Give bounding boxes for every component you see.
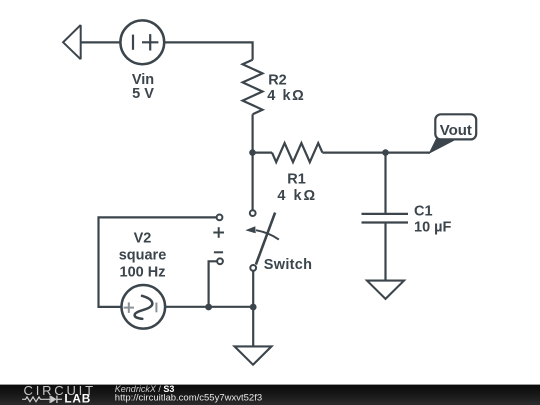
svg-text:100 Hz: 100 Hz (120, 265, 166, 281)
voltage source V2 (122, 285, 166, 329)
switch SW1 top terminal (250, 210, 256, 216)
svg-text:C1: C1 (414, 204, 433, 220)
switch SW1 blade (256, 213, 275, 265)
wire Vin positive to R2 top (164, 42, 252, 59)
wire control − terminal down to bottom net (209, 261, 217, 307)
net flag Vout (430, 114, 477, 153)
switch SW1 bottom terminal (250, 265, 256, 271)
resistor R2 (243, 60, 263, 115)
ground GND1 (rotated left, at Vin negative) (63, 25, 81, 59)
wire junction to Vout flag (386, 152, 431, 154)
svg-text:4 kΩ: 4 kΩ (277, 188, 317, 204)
label R1 4 kΩ (277, 172, 317, 204)
wire ground to Vin negative terminal (81, 41, 121, 43)
svg-text:R2: R2 (268, 73, 287, 89)
svg-text:4 kΩ: 4 kΩ (267, 88, 305, 104)
svg-text:LAB: LAB (64, 392, 91, 405)
switch SW1 control terminal − (217, 258, 223, 264)
voltage source Vin (120, 20, 164, 64)
wire Vout junction down to C1 top plate (384, 153, 386, 214)
svg-text:Switch: Switch (264, 257, 313, 273)
svg-text:5 V: 5 V (132, 86, 154, 102)
junction node R2/R1/switch (249, 149, 256, 156)
wire control + terminal to V2 left (up and over) (99, 217, 217, 307)
wire V2 right terminal along bottom net to switch (165, 306, 253, 308)
label C1 10 µF (414, 204, 452, 236)
V2 polarity + (gray) (124, 302, 157, 313)
switch SW1 actuation arrow (245, 226, 279, 239)
junction node switch / bottom net (250, 304, 257, 311)
capacitor C1 (362, 214, 409, 223)
switch SW1 control terminal + (217, 215, 223, 221)
footer bar (0, 383, 540, 405)
svg-text:R1: R1 (287, 172, 306, 188)
wire bottom net down to ground (252, 307, 254, 346)
svg-text:square: square (119, 248, 167, 264)
label Vin 5 V (132, 72, 154, 102)
switch control polarity − (214, 251, 223, 253)
svg-text:10 µF: 10 µF (414, 220, 452, 236)
svg-text:http://circuitlab.com/c55y7wxv: http://circuitlab.com/c55y7wxvt52f3 (115, 393, 262, 404)
junction node R1/C1/Vout (382, 149, 389, 156)
switch control polarity + (213, 227, 224, 238)
wire R1 right to Vout junction (322, 152, 385, 154)
wire switch bottom terminal to bottom net (252, 271, 254, 307)
ground GND3 (below switch) (235, 346, 272, 364)
footer logo schematic squiggle (22, 396, 62, 403)
V2 square wave glyph (135, 296, 153, 319)
wire C1 bottom plate to ground (384, 223, 386, 281)
wire junction down to switch top terminal (252, 153, 254, 210)
ground GND2 (below C1) (367, 281, 404, 299)
wire junction to R1 left (253, 152, 273, 154)
label V2 square 100 Hz (119, 231, 167, 281)
resistor R1 (272, 143, 322, 162)
label R2 4 kΩ (267, 73, 305, 105)
svg-text:Vout: Vout (440, 122, 472, 139)
svg-text:V2: V2 (134, 231, 152, 247)
junction node control − / bottom net (205, 304, 212, 311)
wire R2 bottom to junction (252, 114, 254, 152)
